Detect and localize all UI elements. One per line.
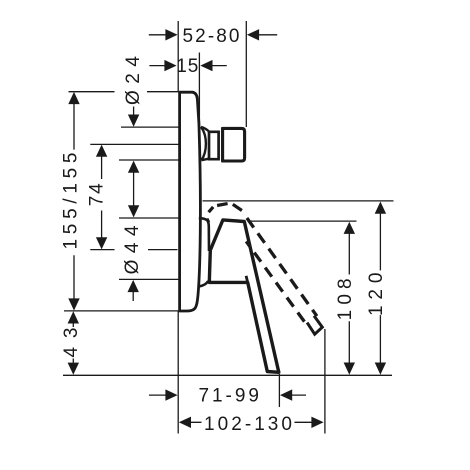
dimension 155/155 line <box>73 103 75 301</box>
extension line knob center <box>90 143 178 145</box>
dimension 15 lines <box>149 65 226 67</box>
extension line plate bottom <box>64 310 180 312</box>
dimension 108 line <box>348 233 350 365</box>
extension line plate front vertical <box>198 53 200 130</box>
extension line handle tip vertical <box>278 374 280 407</box>
arrow 52-80 right <box>247 29 259 40</box>
handle hub and lever <box>209 220 278 372</box>
dimension Ø24-Ø44 shared leader <box>133 171 135 207</box>
extension line plate top <box>69 91 179 93</box>
extension line hub top <box>119 217 179 219</box>
arrow 108 top <box>344 222 355 234</box>
svg-text:71-99: 71-99 <box>198 386 259 407</box>
handle dome <box>199 218 209 251</box>
dimension 71-99 lines <box>149 394 306 396</box>
arrow 102-130 left <box>179 417 191 428</box>
svg-text:Ø44: Ø44 <box>122 225 143 274</box>
arrow 102-130 right <box>311 417 323 428</box>
dashed handle tip cap <box>307 316 322 335</box>
arrow 43 bottom <box>68 363 79 375</box>
stop valve knob face line <box>221 127 224 162</box>
svg-text:155/155: 155/155 <box>61 153 82 250</box>
arrow 43 top <box>68 311 79 323</box>
stop valve dome <box>201 127 209 160</box>
svg-text:52-80: 52-80 <box>183 26 240 47</box>
arrow 71-99 left <box>165 389 177 400</box>
dimension 120 line <box>379 213 381 364</box>
extension line handle center <box>90 249 177 251</box>
arrow 71-99 right <box>280 389 292 400</box>
extension line dashed-handle tip vertical <box>324 329 326 434</box>
extension line knob bottom <box>119 159 179 161</box>
dimension 43 line <box>72 323 74 365</box>
dimension 102-130 lines <box>191 421 313 423</box>
arrow 155/155 bottom <box>68 298 79 310</box>
dashed handle lower edge <box>246 241 306 324</box>
arrow Ø24 bottom <box>128 161 139 173</box>
extension line hub bottom <box>119 278 179 280</box>
arrow Ø44 top <box>128 205 139 217</box>
svg-text:102-130: 102-130 <box>204 414 292 435</box>
svg-text:74: 74 <box>86 183 107 206</box>
dashed handle raised position curl <box>207 204 242 223</box>
extension line knob top <box>121 126 179 128</box>
arrow 108 bottom <box>344 363 355 375</box>
wall plate escutcheon <box>180 92 201 311</box>
arrow 120 bottom <box>375 363 386 375</box>
arrow Ø24 top <box>128 115 139 127</box>
extension line bottom reference <box>63 374 392 376</box>
arrow Ø44 bottom <box>128 280 139 292</box>
arrow 15 right <box>200 60 212 71</box>
arrow 120 top <box>375 202 386 214</box>
extension line hub top right <box>248 220 357 222</box>
stop valve knob <box>223 128 245 161</box>
dimension 74 line <box>101 156 103 239</box>
extension line dashed-handle top <box>203 200 394 202</box>
dashed handle upper edge <box>247 218 317 316</box>
svg-text:120: 120 <box>366 273 387 317</box>
svg-text:108: 108 <box>335 278 356 320</box>
arrow 15 left <box>164 60 176 71</box>
svg-text:5: 5 <box>188 56 199 77</box>
svg-text:1: 1 <box>176 56 187 77</box>
extension line wall top vertical <box>177 21 179 92</box>
dimension Ø24 leader <box>133 107 135 117</box>
extension line knob tip vertical <box>245 21 247 127</box>
svg-text:Ø24: Ø24 <box>123 56 144 105</box>
arrow 74 top <box>96 145 107 157</box>
arrow 155/155 top <box>68 92 79 104</box>
svg-text:43: 43 <box>61 328 82 358</box>
dimension Ø44 bottom leader <box>132 291 134 302</box>
arrow 74 bottom <box>96 237 107 249</box>
arrow 52-80 left <box>165 29 177 40</box>
extension line wall bottom vertical <box>177 311 179 434</box>
handle lever left notch <box>246 276 248 283</box>
dimension 52-80 lines <box>149 34 277 36</box>
stop valve collar <box>209 132 219 159</box>
